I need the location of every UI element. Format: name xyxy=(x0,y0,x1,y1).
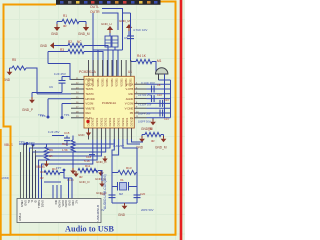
svg-text:GND: GND xyxy=(118,213,126,217)
svg-text:OUTL: OUTL xyxy=(90,5,99,9)
svg-text:D+: D+ xyxy=(27,200,31,204)
svg-text:TEST1: TEST1 xyxy=(86,87,95,91)
svg-text:GND_M: GND_M xyxy=(119,19,130,23)
svg-text:DGND1: DGND1 xyxy=(109,117,112,126)
svg-text:R8: R8 xyxy=(148,127,152,131)
svg-text:VDDB1: VDDB1 xyxy=(102,78,105,87)
svg-text:U1: U1 xyxy=(128,70,132,74)
svg-text:GND_M: GND_M xyxy=(155,146,167,150)
svg-text:PCM2912A: PCM2912A xyxy=(79,70,97,74)
svg-text:VDDB1: VDDB1 xyxy=(97,78,100,87)
svg-text:USB-A: USB-A xyxy=(18,213,22,221)
svg-text:VDDB1: VDDB1 xyxy=(87,78,90,87)
svg-text:R9: R9 xyxy=(49,148,53,152)
svg-text:DGND1: DGND1 xyxy=(113,117,116,126)
svg-text:DGND1: DGND1 xyxy=(100,117,103,126)
svg-text:ID: ID xyxy=(34,200,38,203)
svg-text:Audio to USB: Audio to USB xyxy=(65,225,114,234)
svg-text:VDDB1: VDDB1 xyxy=(116,78,119,87)
svg-text:OUTL: OUTL xyxy=(61,200,65,207)
svg-text:DGND1: DGND1 xyxy=(122,117,125,126)
svg-text:X1: X1 xyxy=(120,178,124,182)
svg-text:AUDIO-USB-CON(DNI): AUDIO-USB-CON(DNI) xyxy=(103,174,107,209)
svg-text:R5: R5 xyxy=(12,58,16,62)
svg-text:0R: 0R xyxy=(49,154,53,158)
svg-text:MIC: MIC xyxy=(54,200,58,205)
svg-text:VDDB1: VDDB1 xyxy=(130,78,133,87)
svg-text:20PF 50V: 20PF 50V xyxy=(141,208,154,212)
svg-text:TP1: TP1 xyxy=(64,113,70,117)
svg-text:VDDB1: VDDB1 xyxy=(106,78,109,87)
svg-text:R10: R10 xyxy=(62,142,68,146)
svg-text:OUTR: OUTR xyxy=(90,10,100,14)
svg-text:0R: 0R xyxy=(151,139,155,143)
svg-text:HPVDD: HPVDD xyxy=(86,97,95,101)
svg-text:NC: NC xyxy=(74,200,78,204)
svg-text:USB-MINI-B: USB-MINI-B xyxy=(96,205,100,222)
svg-text:GND: GND xyxy=(23,200,27,206)
svg-text:VCOM: VCOM xyxy=(86,102,94,106)
svg-text:R13: R13 xyxy=(126,166,132,170)
svg-text:SHELL: SHELL xyxy=(37,200,41,209)
svg-text:5.1K: 5.1K xyxy=(84,159,90,163)
svg-text:MIC: MIC xyxy=(129,92,134,96)
svg-text:0R: 0R xyxy=(63,24,67,28)
svg-text:VDDB1: VDDB1 xyxy=(111,78,114,87)
svg-text:DGND1: DGND1 xyxy=(126,117,129,126)
svg-text:100PF 50V: 100PF 50V xyxy=(138,113,151,116)
svg-text:1UF 25V: 1UF 25V xyxy=(48,130,59,134)
svg-text:C15: C15 xyxy=(64,131,70,135)
svg-text:REC: REC xyxy=(86,111,92,115)
svg-text:PR: PR xyxy=(130,111,134,115)
svg-text:0R: 0R xyxy=(79,175,83,179)
svg-text:0R: 0R xyxy=(40,176,44,180)
svg-text:6M: 6M xyxy=(119,192,124,196)
svg-text:GND: GND xyxy=(40,44,48,48)
svg-text:DGND1: DGND1 xyxy=(87,117,90,126)
svg-text:100PF 50V: 100PF 50V xyxy=(138,121,151,124)
svg-text:TP4: TP4 xyxy=(19,140,25,144)
svg-text:DGND1: DGND1 xyxy=(118,117,121,126)
svg-text:GND_H: GND_H xyxy=(101,22,112,26)
svg-text:AGND: AGND xyxy=(126,97,134,101)
svg-text:C20: C20 xyxy=(140,192,146,196)
svg-text:DGND1: DGND1 xyxy=(96,117,99,126)
svg-text:VDDB1: VDDB1 xyxy=(125,78,128,87)
svg-text:VDDB1: VDDB1 xyxy=(92,78,95,87)
svg-text:AGND: AGND xyxy=(57,200,61,208)
svg-text:+4.7UF 25V: +4.7UF 25V xyxy=(138,94,152,97)
svg-text:VBUS: VBUS xyxy=(36,165,45,169)
svg-text:D-: D- xyxy=(30,200,34,203)
svg-text:TEST0: TEST0 xyxy=(86,92,95,96)
svg-text:s(DNI): s(DNI) xyxy=(1,176,9,180)
svg-text:VBUS: VBUS xyxy=(20,200,24,207)
svg-text:VDD: VDD xyxy=(71,200,75,206)
svg-text:PCM2912A: PCM2912A xyxy=(102,101,116,105)
svg-text:C13: C13 xyxy=(164,99,169,102)
svg-text:VMUTE: VMUTE xyxy=(86,106,95,110)
svg-text:GND: GND xyxy=(78,133,84,137)
svg-text:GND2: GND2 xyxy=(40,200,44,208)
svg-text:1.5K: 1.5K xyxy=(62,148,68,152)
svg-text:TP7: TP7 xyxy=(56,166,62,170)
svg-text:C9: C9 xyxy=(49,85,53,89)
svg-text:1UF 25V: 1UF 25V xyxy=(54,72,66,76)
svg-text:R11: R11 xyxy=(85,164,91,168)
svg-text:V-OTB: V-OTB xyxy=(126,87,134,91)
svg-text:GND_P: GND_P xyxy=(22,108,33,112)
svg-text:TP6: TP6 xyxy=(40,114,46,118)
svg-text:V-COM: V-COM xyxy=(125,102,134,106)
svg-text:1UF 25V: 1UF 25V xyxy=(113,144,124,148)
svg-text:DGND1: DGND1 xyxy=(92,117,95,126)
svg-text:GND_D: GND_D xyxy=(79,180,90,184)
svg-text:GND_M: GND_M xyxy=(78,32,90,36)
svg-text:OUTR: OUTR xyxy=(64,200,68,207)
svg-text:DGND1: DGND1 xyxy=(105,117,108,126)
svg-text:C5: C5 xyxy=(124,36,128,40)
svg-text:C8: C8 xyxy=(157,83,161,87)
svg-text:+3.3UF 16V: +3.3UF 16V xyxy=(138,104,152,107)
svg-text:GND: GND xyxy=(68,200,72,206)
svg-text:V-CINE: V-CINE xyxy=(125,106,134,110)
svg-text:R1: R1 xyxy=(63,14,67,18)
svg-text:VDDB1: VDDB1 xyxy=(120,78,123,87)
svg-text:M1: M1 xyxy=(157,59,162,63)
svg-text:C14: C14 xyxy=(164,118,169,121)
svg-text:C10: C10 xyxy=(157,93,162,97)
svg-text:DGND1: DGND1 xyxy=(130,117,133,126)
svg-text:4.7UF 10V: 4.7UF 10V xyxy=(133,28,147,32)
svg-text:GND: GND xyxy=(51,32,59,36)
svg-text:R4 1K: R4 1K xyxy=(137,54,147,58)
